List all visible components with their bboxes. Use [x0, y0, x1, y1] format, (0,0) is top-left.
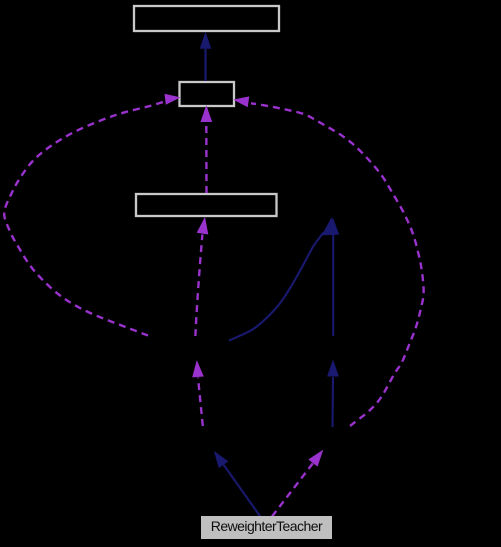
edge: small box to top box, solid inheritance arrow [200, 32, 212, 81]
top class box [134, 6, 279, 31]
edge: node D to node A, dashed usage arrow [192, 360, 204, 426]
edge: ReweighterTeacher to node E, dashed usage arrow [272, 450, 323, 517]
edge: node A to small box, big left loop, dashed usage arrow [4, 94, 180, 336]
edge: node E to node C, vertical solid arrow [327, 360, 339, 428]
ReweighterTeacher label [211, 518, 322, 534]
edge: node A to middle box, dashed usage arrow [195, 217, 208, 336]
edge: node A to node B, curved solid arrow [229, 217, 339, 340]
ReweighterTeacher node box [201, 516, 332, 539]
edge: middle box to small box, dashed usage arrow [201, 105, 213, 193]
edge: ReweighterTeacher to node D, solid arrow [214, 451, 260, 517]
middle class box [136, 194, 277, 216]
edge: node E to small box, big right loop, dashed usage arrow [233, 96, 423, 426]
edge: node C to node B, vertical solid arrow [328, 218, 339, 336]
small class box [180, 82, 235, 106]
